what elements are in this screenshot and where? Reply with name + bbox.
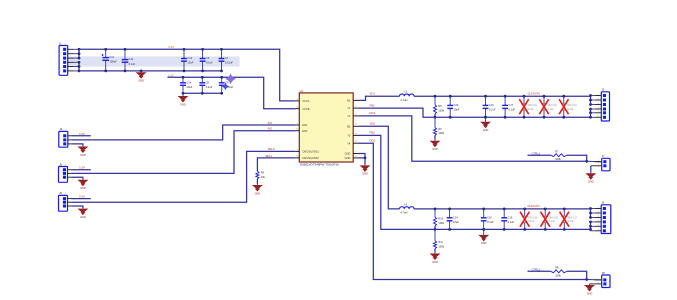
wire J3 pins 4-6 link <box>589 221 592 231</box>
wire J6 pin1 3.3V stub <box>71 195 91 199</box>
svg-text:10uF: 10uF <box>187 61 193 65</box>
capacitor C14 10uF <box>180 76 193 95</box>
svg-text:J6: J6 <box>59 191 62 195</box>
svg-text:VD2: VD2 <box>370 122 376 126</box>
svg-text:VCCB: VCCB <box>302 107 309 111</box>
svg-text:GND: GND <box>80 216 86 219</box>
wire J4 signal <box>71 121 295 140</box>
connector J2 <box>598 88 610 121</box>
svg-text:EN1: EN1 <box>302 123 308 127</box>
svg-text:100uF: 100uF <box>109 60 117 64</box>
J1 pin stubs <box>68 49 79 71</box>
ground of top filter <box>480 116 491 132</box>
svg-text:C24: C24 <box>453 215 458 219</box>
wire bottom filter rail <box>414 208 591 210</box>
svg-text:Y1: Y1 <box>347 106 351 110</box>
svg-text:C7: C7 <box>225 56 229 60</box>
svg-text:GND: GND <box>255 192 261 195</box>
capacitor C20 10pF <box>447 95 460 119</box>
net label R8 input <box>532 267 541 271</box>
wire top filter return rail <box>435 116 591 118</box>
svg-text:0.1uF: 0.1uF <box>549 220 556 223</box>
svg-text:100k: 100k <box>555 273 561 277</box>
svg-text:C12: C12 <box>129 57 134 61</box>
svg-text:0.1uF: 0.1uF <box>548 108 555 111</box>
wire bottom filter return rail <box>435 228 591 230</box>
net highlight band <box>68 56 240 66</box>
wire J2 pins 4-6 link <box>589 108 592 119</box>
svg-text:DNI C21: DNI C21 <box>528 104 538 107</box>
svg-text:FB1: FB1 <box>370 103 376 107</box>
svg-text:GND: GND <box>362 173 368 176</box>
ground of J7 <box>585 166 596 184</box>
svg-text:FB2: FB2 <box>370 131 376 135</box>
J5 pin stubs <box>68 170 72 178</box>
ground of R9 <box>252 184 263 195</box>
cursor star large <box>225 73 236 84</box>
wire R7 stub <box>528 154 551 156</box>
capacitor C11 100uF <box>102 48 118 72</box>
svg-text:IN2: IN2 <box>268 127 273 131</box>
capacitor C16 0.1uF <box>483 95 496 119</box>
wire J5 pin1 3.3V stub <box>71 166 91 170</box>
svg-text:CMOS/LVDS1: CMOS/LVDS1 <box>302 150 319 154</box>
svg-text:CMOS/LVDS2: CMOS/LVDS2 <box>302 156 319 160</box>
svg-text:J4: J4 <box>59 127 62 131</box>
svg-text:3.3V: 3.3V <box>79 166 85 170</box>
svg-text:0.1uF: 0.1uF <box>487 220 494 224</box>
svg-text:C16: C16 <box>489 103 494 107</box>
ground of rail A <box>136 70 147 83</box>
svg-text:10pF: 10pF <box>454 108 460 112</box>
svg-text:B1: B1 <box>347 99 351 103</box>
capacitor C7 0.01uF <box>219 48 234 72</box>
capacitor C23 DNI <box>559 95 577 119</box>
svg-text:C8: C8 <box>206 80 210 84</box>
U1 part number <box>300 163 339 167</box>
svg-text:DO2: DO2 <box>370 139 376 143</box>
svg-text:GND: GND <box>345 152 351 156</box>
connector J4 <box>59 127 68 147</box>
resistor R9 10k <box>256 171 266 179</box>
svg-text:VD1: VD1 <box>370 92 376 96</box>
svg-text:R11: R11 <box>438 240 443 244</box>
capacitor C6 0.1uF <box>200 48 213 72</box>
wire rail B return <box>183 92 222 94</box>
capacitor C27 DNI <box>560 208 578 231</box>
svg-text:3.3V: 3.3V <box>79 132 85 136</box>
svg-text:C14: C14 <box>186 80 191 84</box>
wire top filter rail <box>414 95 591 97</box>
wire R8 to node <box>567 271 588 281</box>
svg-text:0.1uF: 0.1uF <box>206 61 213 65</box>
wire U1 pin Y3 feedback <box>359 131 436 230</box>
connector J1 <box>59 41 68 75</box>
ground of R11 <box>430 253 441 264</box>
wire J1 pins 4-6 link <box>78 61 81 72</box>
resistor R7 100k <box>551 150 567 162</box>
op-amp U1 body <box>299 89 353 162</box>
svg-text:GND: GND <box>432 261 438 264</box>
svg-text:GND: GND <box>483 129 489 132</box>
svg-text:100k: 100k <box>438 245 444 249</box>
svg-text:DNI C27: DNI C27 <box>568 217 578 220</box>
svg-text:DNI C23: DNI C23 <box>567 104 577 107</box>
ground of J8 <box>584 284 595 295</box>
svg-text:R7: R7 <box>555 150 559 154</box>
svg-text:100k: 100k <box>438 131 444 135</box>
svg-text:C17: C17 <box>509 103 514 107</box>
wire J2 pins 1-3 link <box>589 94 592 106</box>
wire R7 to node <box>567 155 588 163</box>
svg-text:CLKOUT1: CLKOUT1 <box>527 204 540 208</box>
svg-text:C18: C18 <box>487 215 492 219</box>
wire U1 pin Y1 feedback <box>359 103 436 117</box>
svg-text:CLKOUT0: CLKOUT0 <box>528 91 541 95</box>
connector J3 <box>598 201 611 234</box>
connector J8 stubs <box>590 280 602 284</box>
resistor R6 100k <box>434 117 445 135</box>
svg-text:J8: J8 <box>602 271 605 275</box>
wire U1 pin Y4 out <box>359 139 587 280</box>
wire R6 to ground <box>434 136 436 140</box>
svg-text:C13: C13 <box>187 56 192 60</box>
svg-text:R5: R5 <box>438 104 442 108</box>
svg-text:C11: C11 <box>109 55 114 59</box>
capacitor C24 10pF <box>447 208 460 231</box>
svg-text:0.1uF: 0.1uF <box>528 108 535 111</box>
wire U1 sel pulldown <box>257 154 295 171</box>
capacitor C19 0.1uF <box>501 208 514 231</box>
resistor R11 100k <box>434 229 445 248</box>
capacitor C26 DNI <box>541 208 559 231</box>
svg-text:0.01uF: 0.01uF <box>225 61 233 65</box>
J4 pin stubs <box>68 136 72 144</box>
svg-text:0.1uF: 0.1uF <box>489 108 496 112</box>
svg-text:4.7uH: 4.7uH <box>400 98 407 102</box>
svg-text:U1: U1 <box>300 89 304 93</box>
svg-text:GND: GND <box>587 292 593 295</box>
svg-text:DNI C22: DNI C22 <box>548 104 558 107</box>
svg-text:J7: J7 <box>602 154 605 158</box>
svg-text:0.1uF: 0.1uF <box>129 62 136 66</box>
svg-text:GND: GND <box>138 80 144 83</box>
connector J7 <box>598 154 610 171</box>
ground of J5 <box>71 177 88 190</box>
svg-text:R8: R8 <box>555 266 559 270</box>
connector J5 <box>59 162 68 182</box>
svg-text:DNI C26: DNI C26 <box>549 217 559 220</box>
ground of J6 <box>71 206 88 219</box>
svg-text:C20: C20 <box>454 103 459 107</box>
svg-text:0.1uF: 0.1uF <box>509 108 516 112</box>
svg-text:C19: C19 <box>508 215 513 219</box>
svg-text:DNI C25: DNI C25 <box>528 217 538 220</box>
svg-text:GND: GND <box>481 242 487 245</box>
wire J1 pins 1-3 link <box>78 48 81 60</box>
wire rail A return <box>79 70 222 72</box>
connector J8 <box>598 271 610 288</box>
ground of rail B <box>178 93 189 106</box>
svg-text:GND: GND <box>80 187 86 190</box>
capacitor C17 0.1uF <box>502 95 515 119</box>
connector J3 stubs <box>591 209 602 231</box>
capacitor C13 10uF <box>181 48 194 72</box>
svg-text:SEL1: SEL1 <box>265 154 272 158</box>
svg-text:0.1uF: 0.1uF <box>567 108 574 111</box>
connector J7 stubs <box>591 162 602 166</box>
wire R9 to ground <box>256 179 258 184</box>
capacitor C21 DNI <box>519 95 537 119</box>
wire U1 pin B2 to rail <box>359 122 400 209</box>
net label top rail <box>528 91 541 95</box>
wire J6 signal <box>71 147 296 202</box>
wire U1 GND pins <box>359 154 367 160</box>
wire R5 to fb node <box>434 114 437 119</box>
resistor R8 100k <box>551 266 567 278</box>
wire R11 to ground <box>434 249 436 253</box>
svg-text:100k: 100k <box>438 108 444 112</box>
connector J6 <box>59 191 68 211</box>
capacitor C22 DNI <box>539 95 557 119</box>
svg-text:10uF: 10uF <box>186 85 192 89</box>
svg-text:3.3V: 3.3V <box>79 195 85 199</box>
svg-text:J3: J3 <box>601 201 604 205</box>
svg-text:R10: R10 <box>438 216 443 220</box>
svg-text:VCCA: VCCA <box>302 99 309 103</box>
svg-text:GND: GND <box>345 156 351 160</box>
svg-text:SEL0: SEL0 <box>268 147 275 151</box>
svg-text:EN2: EN2 <box>302 129 308 133</box>
svg-text:10k: 10k <box>261 175 266 179</box>
U1 left pins <box>296 99 320 160</box>
svg-text:GND: GND <box>588 181 594 184</box>
resistor R10 100k <box>434 208 445 227</box>
svg-text:GND: GND <box>180 103 186 106</box>
svg-text:Y3: Y3 <box>347 134 351 138</box>
wire J5 signal <box>71 127 296 174</box>
resistor R5 100k <box>434 95 445 114</box>
svg-text:100k: 100k <box>438 221 444 225</box>
capacitor C12 0.1uF <box>122 48 136 72</box>
cursor star small <box>221 82 229 90</box>
svg-text:GND: GND <box>432 148 438 151</box>
wire 3.3V rail A <box>79 49 296 101</box>
U1 right pins <box>345 98 359 160</box>
svg-text:C6: C6 <box>206 56 210 60</box>
connector J2 stubs <box>591 96 602 118</box>
svg-text:Y2: Y2 <box>347 114 351 118</box>
svg-text:3.3V: 3.3V <box>168 45 174 49</box>
svg-text:0.1uF: 0.1uF <box>206 85 213 89</box>
svg-text:R6: R6 <box>438 127 442 131</box>
ground of J4 <box>71 144 88 157</box>
inductor L4 4.7uH <box>400 202 415 214</box>
wire node to J7 <box>587 160 602 162</box>
svg-text:100k: 100k <box>555 157 561 161</box>
svg-text:GND: GND <box>80 154 86 157</box>
svg-text:R9: R9 <box>261 171 265 175</box>
svg-text:J2: J2 <box>601 88 604 92</box>
capacitor C25 DNI <box>520 208 538 231</box>
net label 3.3V rail B <box>168 73 174 77</box>
inductor L3 4.7uH <box>400 90 415 102</box>
net label 3.3V rail A <box>168 45 174 49</box>
wire R8 stub <box>528 270 551 272</box>
svg-text:B2: B2 <box>347 124 351 128</box>
svg-text:Y4: Y4 <box>347 141 351 145</box>
svg-text:0.1uF: 0.1uF <box>528 220 535 223</box>
capacitor C9 0.01uF <box>219 76 234 95</box>
net label R7 input <box>532 151 541 155</box>
wire J4 pin1 3.3V stub <box>71 132 90 136</box>
svg-text:0.1uF: 0.1uF <box>508 220 515 224</box>
capacitor C18 0.1uF <box>481 208 494 231</box>
wire R10 to fb node <box>434 226 437 231</box>
svg-text:J1: J1 <box>59 41 62 45</box>
ground of R6 <box>430 140 441 151</box>
wire J3 pins 1-3 link <box>589 207 592 219</box>
wire U1 pin Y2 out <box>359 111 587 161</box>
J6 pin stubs <box>68 199 72 206</box>
wire 3.3V rail B <box>167 77 295 108</box>
svg-text:3.3V: 3.3V <box>168 73 174 77</box>
svg-text:DO1: DO1 <box>370 111 376 115</box>
svg-text:4.7uH: 4.7uH <box>400 211 407 215</box>
svg-text:0.1uF: 0.1uF <box>568 220 575 223</box>
svg-text:SN65LVDT348PW TSSOP16: SN65LVDT348PW TSSOP16 <box>300 163 339 167</box>
ground of bottom filter <box>478 228 489 245</box>
svg-text:IN1: IN1 <box>268 121 273 125</box>
wire node to J8 <box>587 279 602 281</box>
ground of U1 <box>360 158 371 176</box>
capacitor C8 0.1uF <box>199 76 212 95</box>
wire U1 pin B1 to rail <box>359 92 400 101</box>
net label bottom rail <box>527 204 540 208</box>
svg-text:J5: J5 <box>59 162 62 166</box>
svg-text:10pF: 10pF <box>453 220 459 224</box>
